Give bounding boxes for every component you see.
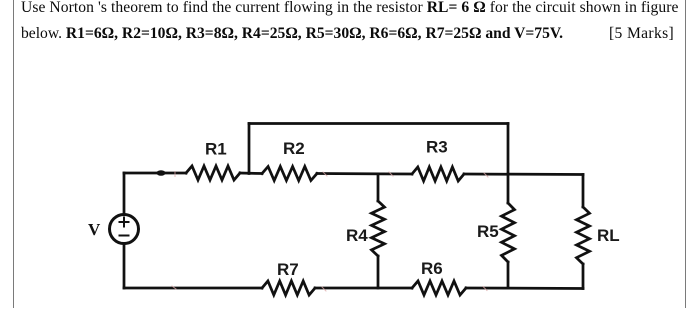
svg-text:R5: R5 xyxy=(477,222,499,241)
voltage source V1 circle xyxy=(110,215,139,244)
question text line 2 xyxy=(21,25,563,43)
resistor R7 xyxy=(262,281,315,295)
svg-text:R4: R4 xyxy=(346,226,368,245)
marks label xyxy=(609,25,674,43)
red scan artifact marks xyxy=(172,172,488,292)
svg-text:R3: R3 xyxy=(426,138,448,157)
wire: vertical up to top rail at node xyxy=(248,124,251,174)
wire: R6 to RL bottom xyxy=(466,287,583,290)
voltage source minus sign xyxy=(120,235,129,237)
wire: V top to main rail xyxy=(123,173,126,215)
wire: R7 to R6 xyxy=(315,287,412,290)
node junction dot on main rail xyxy=(157,170,166,176)
voltage source plus sign xyxy=(120,218,129,236)
svg-text:R7: R7 xyxy=(277,260,299,279)
resistor R5 vertical xyxy=(502,174,515,288)
resistor R3 xyxy=(412,167,464,181)
resistor R6 xyxy=(412,281,466,295)
wire: top rail xyxy=(249,122,508,125)
svg-text:R1: R1 xyxy=(205,140,227,159)
right page border xyxy=(685,0,686,308)
wire: main rail from V to R1 xyxy=(124,172,186,175)
resistor RL vertical xyxy=(577,175,590,289)
left page border xyxy=(13,0,14,308)
wire: R3 to RL top xyxy=(464,173,583,176)
wire: R1 to R2 with junction to top rail xyxy=(240,172,262,175)
wire: V bottom to bottom rail xyxy=(123,244,126,289)
wire: bottom rail V to R7 xyxy=(124,287,262,290)
svg-text:R6: R6 xyxy=(421,259,443,278)
svg-text:V: V xyxy=(88,220,101,239)
svg-text:RL: RL xyxy=(597,226,620,245)
wire: top rail drop down to main rail xyxy=(507,124,510,175)
svg-text:R2: R2 xyxy=(283,139,305,158)
question text line 1 xyxy=(21,0,679,17)
wire: R2 to R3 xyxy=(317,172,412,175)
resistor R2 xyxy=(262,167,317,181)
resistor R1 xyxy=(186,166,240,180)
resistor R4 vertical xyxy=(372,174,385,288)
